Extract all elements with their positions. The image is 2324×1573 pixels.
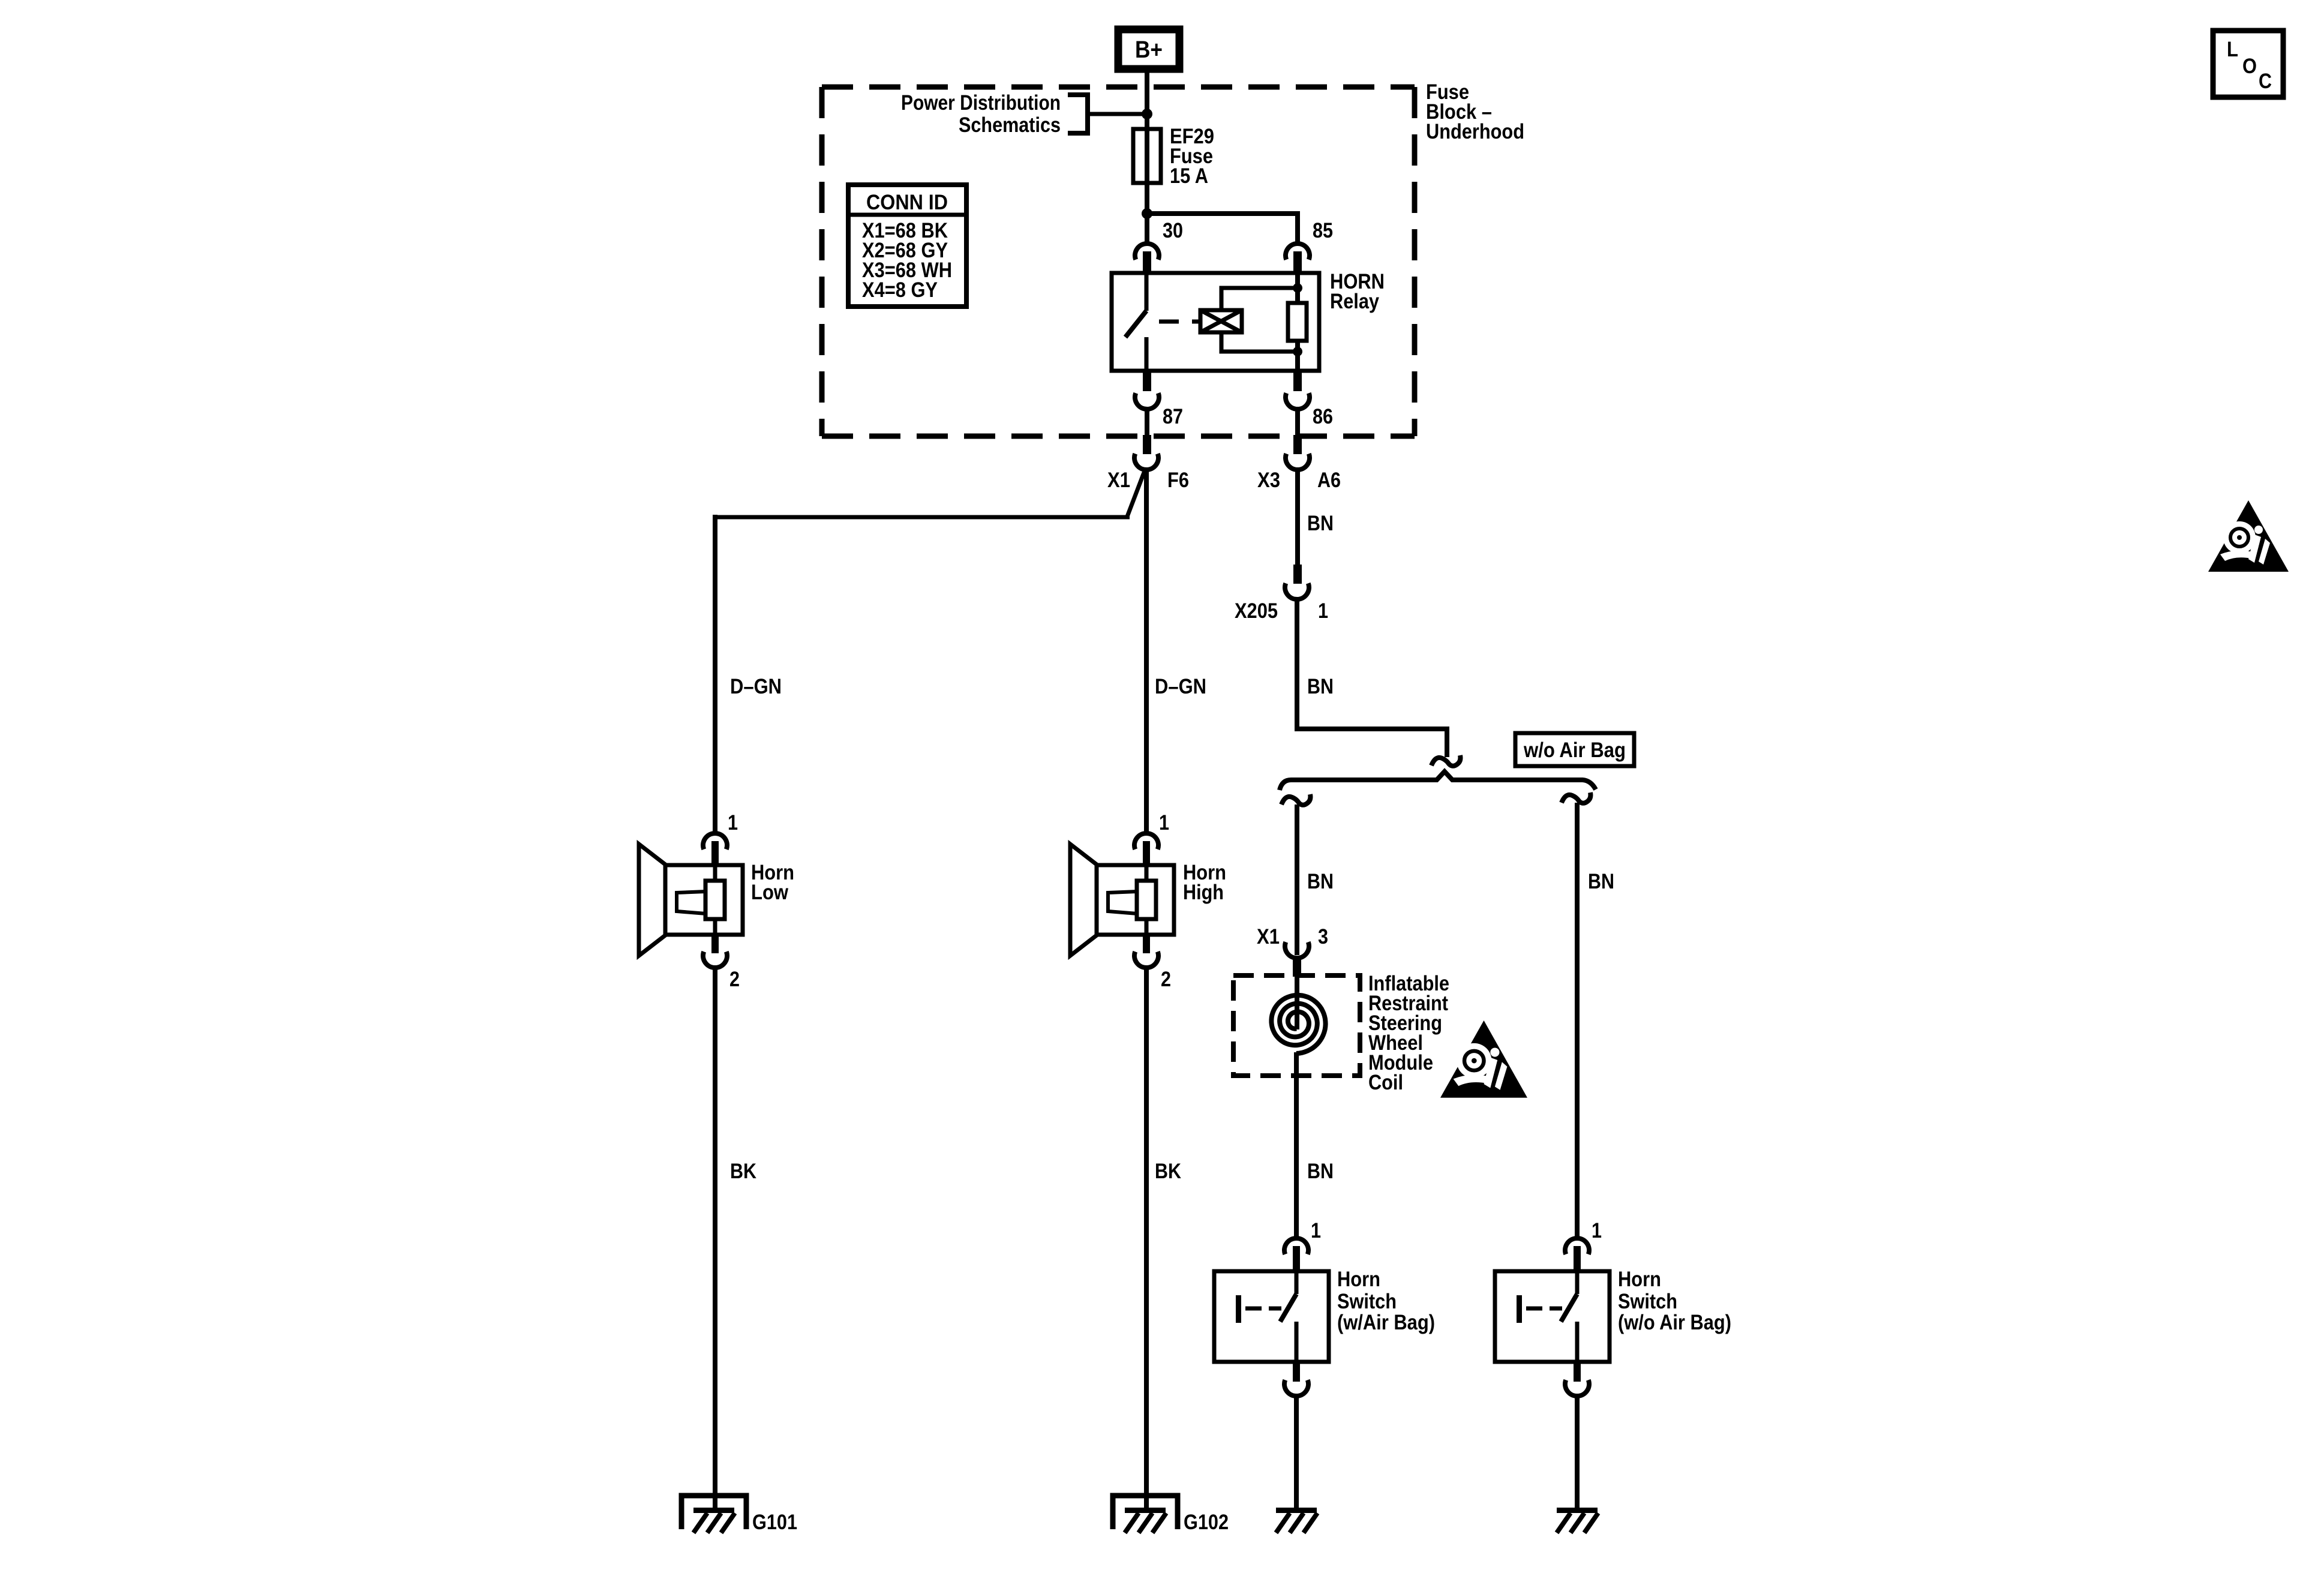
svg-text:X1: X1 bbox=[1107, 469, 1130, 492]
LOC letters bbox=[2227, 38, 2272, 93]
wire break squiggle at feed bbox=[1431, 755, 1460, 766]
svg-text:Switch: Switch bbox=[1618, 1290, 1677, 1313]
relay coil box with X bbox=[1200, 310, 1242, 332]
svg-text:L: L bbox=[2227, 38, 2238, 61]
horn switch w/Air Bag label bbox=[1337, 1268, 1435, 1334]
horn low symbol bbox=[703, 833, 727, 849]
wire pin 86 to X3 A6 bbox=[1295, 409, 1300, 445]
svg-text:C: C bbox=[2259, 70, 2272, 93]
svg-text:(w/o Air Bag): (w/o Air Bag) bbox=[1618, 1311, 1731, 1334]
pin 1 label horn high bbox=[1159, 811, 1169, 834]
wire left option down to coil connector bbox=[1295, 804, 1299, 955]
wire horn low column upper bbox=[713, 515, 717, 833]
svg-text:(w/Air Bag): (w/Air Bag) bbox=[1337, 1311, 1435, 1334]
pin 1 label switch right bbox=[1592, 1219, 1602, 1242]
svg-text:B+: B+ bbox=[1135, 37, 1163, 63]
relay pin 30 connector bbox=[1135, 244, 1159, 260]
svg-text:X4=8 GY: X4=8 GY bbox=[862, 278, 938, 302]
svg-text:1: 1 bbox=[1318, 599, 1328, 623]
svg-text:Horn: Horn bbox=[1618, 1268, 1661, 1291]
fuse block - underhood dashed outline box bbox=[822, 87, 1415, 436]
B+ label bbox=[1135, 37, 1163, 63]
wire switch left to ground bbox=[1294, 1396, 1299, 1511]
wire X205 down and jog right bbox=[1297, 599, 1447, 757]
svg-text:High: High bbox=[1183, 881, 1224, 904]
svg-text:BN: BN bbox=[1307, 512, 1334, 535]
wire break squiggle right option bbox=[1562, 792, 1590, 803]
pin 85 label bbox=[1313, 219, 1333, 242]
pin 87 label bbox=[1163, 405, 1183, 428]
X1 pin 3 labels bbox=[1257, 925, 1328, 948]
svg-text:BK: BK bbox=[730, 1160, 756, 1183]
svg-text:1: 1 bbox=[1159, 811, 1169, 834]
svg-text:87: 87 bbox=[1163, 405, 1183, 428]
pin 2 label horn low bbox=[729, 968, 740, 991]
coil label bbox=[1368, 972, 1449, 1094]
svg-text:2: 2 bbox=[1161, 968, 1171, 991]
wire horizontal to horn low column bbox=[715, 515, 1130, 520]
ground G101 bbox=[681, 1496, 746, 1529]
horn switch w/Air Bag symbol bbox=[1284, 1238, 1308, 1254]
svg-text:F6: F6 bbox=[1167, 469, 1189, 492]
wire tap to power distribution bracket bbox=[1089, 112, 1142, 116]
svg-text:Coil: Coil bbox=[1368, 1071, 1403, 1094]
BN label below X205 bbox=[1307, 675, 1334, 698]
svg-text:Switch: Switch bbox=[1337, 1290, 1397, 1313]
coil dashed box bbox=[1233, 975, 1360, 1076]
svg-text:X1: X1 bbox=[1257, 925, 1280, 948]
relay pin 87 connector bbox=[1143, 370, 1151, 391]
w/o Air Bag label bbox=[1523, 739, 1626, 762]
wire diagonal from X1 F6 bbox=[1127, 471, 1145, 517]
BN label left option bbox=[1307, 870, 1334, 893]
svg-text:3: 3 bbox=[1318, 925, 1328, 948]
connector X205 pin 1 bbox=[1293, 565, 1302, 584]
HORN Relay label bbox=[1330, 270, 1385, 313]
pin 1 label switch left bbox=[1311, 1219, 1321, 1242]
D-GN label horn high bbox=[1155, 675, 1206, 698]
wire B+ down through fuse to pin 30 bbox=[1145, 69, 1149, 244]
relay resistor bbox=[1288, 303, 1307, 341]
relay coil top lead bbox=[1221, 288, 1298, 310]
svg-text:D–GN: D–GN bbox=[730, 675, 782, 698]
relay actuator dashed link bbox=[1159, 320, 1200, 324]
svg-text:BN: BN bbox=[1588, 870, 1614, 893]
fuse EF29 15A symbol bbox=[1133, 129, 1161, 183]
X3 A6 labels bbox=[1257, 469, 1341, 492]
svg-text:CONN ID: CONN ID bbox=[866, 191, 948, 214]
D-GN label horn low bbox=[730, 675, 782, 698]
wire break squiggle left option bbox=[1281, 794, 1310, 805]
w/o Air Bag option box bbox=[1515, 733, 1634, 766]
junction dot below fuse bbox=[1142, 208, 1152, 219]
wire pin 87 to X1 F6 bbox=[1145, 409, 1149, 445]
wire through relay right side bbox=[1295, 274, 1300, 371]
pin 30 label bbox=[1163, 219, 1183, 242]
BK label horn low bbox=[730, 1160, 756, 1183]
wire from fuse junction to relay pin 85 bbox=[1147, 214, 1298, 244]
power distribution bracket bbox=[1068, 95, 1088, 133]
svg-text:2: 2 bbox=[729, 968, 740, 991]
relay pin 85 connector bbox=[1286, 244, 1310, 260]
wire out of coil bbox=[1294, 1052, 1299, 1238]
clockspring coil spiral bbox=[1271, 995, 1325, 1053]
svg-text:D–GN: D–GN bbox=[1155, 675, 1206, 698]
LOC reference box bbox=[2213, 31, 2283, 97]
ground G102 bbox=[1113, 1496, 1178, 1529]
horn switch w/o Air Bag symbol bbox=[1565, 1238, 1589, 1254]
ground below horn switch left bbox=[1276, 1508, 1317, 1513]
svg-text:O: O bbox=[2242, 55, 2257, 78]
horn switch w/o Air Bag label bbox=[1618, 1268, 1731, 1334]
wire switch right to ground bbox=[1575, 1396, 1580, 1511]
svg-text:86: 86 bbox=[1313, 405, 1333, 428]
G102 label bbox=[1184, 1511, 1229, 1534]
svg-text:w/o Air Bag: w/o Air Bag bbox=[1523, 739, 1626, 762]
pin 86 label bbox=[1313, 405, 1333, 428]
power distribution schematics label bbox=[901, 91, 1061, 137]
svg-text:BN: BN bbox=[1307, 675, 1334, 698]
wire horn high to ground bbox=[1144, 968, 1149, 1511]
horn high label bbox=[1183, 861, 1226, 904]
fuse EF29 label bbox=[1170, 125, 1214, 188]
svg-text:X3: X3 bbox=[1257, 469, 1280, 492]
BN label coil to switch bbox=[1307, 1160, 1334, 1183]
CONN ID table box bbox=[848, 185, 966, 307]
svg-text:A6: A6 bbox=[1317, 469, 1341, 492]
svg-text:BN: BN bbox=[1307, 870, 1334, 893]
svg-text:85: 85 bbox=[1313, 219, 1333, 242]
svg-text:Relay: Relay bbox=[1330, 290, 1379, 313]
wire right option down to horn switch bbox=[1575, 803, 1580, 1238]
relay switch contact upper bbox=[1145, 273, 1149, 311]
connector X3 A6 bbox=[1293, 435, 1302, 454]
wire horn low to ground bbox=[713, 968, 717, 1511]
connector X1 F6 bbox=[1143, 435, 1151, 454]
horn high symbol bbox=[1134, 833, 1158, 849]
airbag warning triangle right margin bbox=[2208, 500, 2289, 572]
svg-text:BK: BK bbox=[1155, 1160, 1181, 1183]
svg-text:Schematics: Schematics bbox=[959, 113, 1061, 137]
pin 1 label horn low bbox=[728, 811, 738, 834]
relay pin 86 connector bbox=[1293, 370, 1302, 391]
G101 label bbox=[752, 1511, 797, 1534]
svg-text:G101: G101 bbox=[752, 1511, 797, 1534]
svg-text:G102: G102 bbox=[1184, 1511, 1229, 1534]
svg-text:BN: BN bbox=[1307, 1160, 1334, 1183]
wire X3 down to X205 bbox=[1295, 470, 1300, 567]
svg-text:15 A: 15 A bbox=[1170, 164, 1208, 188]
junction dot coil top bbox=[1293, 283, 1302, 293]
svg-text:30: 30 bbox=[1163, 219, 1183, 242]
CONN ID table text bbox=[862, 191, 952, 302]
X1 F6 labels bbox=[1107, 469, 1189, 492]
wire into coil bbox=[1295, 975, 1299, 1029]
junction dot at power distribution tap bbox=[1142, 109, 1152, 119]
options split brace bbox=[1280, 772, 1596, 790]
svg-text:Underhood: Underhood bbox=[1426, 120, 1524, 143]
svg-text:1: 1 bbox=[1311, 1219, 1321, 1242]
relay coil bottom lead bbox=[1221, 332, 1298, 352]
wire horn high column upper bbox=[1144, 470, 1149, 833]
svg-text:1: 1 bbox=[1592, 1219, 1602, 1242]
relay switch contact lower bbox=[1145, 337, 1149, 371]
BN label above X205 bbox=[1307, 512, 1334, 535]
svg-text:1: 1 bbox=[728, 811, 738, 834]
svg-text:Horn: Horn bbox=[1337, 1268, 1380, 1291]
fuse block label bbox=[1426, 80, 1524, 143]
relay switch blade bbox=[1125, 311, 1146, 337]
BN label right option bbox=[1588, 870, 1614, 893]
airbag warning triangle at coil bbox=[1440, 1020, 1527, 1098]
pin 2 label horn high bbox=[1161, 968, 1171, 991]
junction dot coil bottom bbox=[1293, 347, 1302, 356]
svg-text:X205: X205 bbox=[1235, 599, 1278, 623]
horn relay box bbox=[1112, 273, 1319, 371]
svg-text:Power Distribution: Power Distribution bbox=[901, 91, 1061, 115]
svg-text:Low: Low bbox=[751, 881, 789, 904]
BK label horn high bbox=[1155, 1160, 1181, 1183]
connector X1 pin 3 bbox=[1285, 942, 1309, 958]
horn low label bbox=[751, 861, 794, 904]
ground below horn switch right bbox=[1557, 1508, 1598, 1513]
battery feed B+ box bbox=[1118, 29, 1179, 69]
X205 labels bbox=[1235, 599, 1328, 623]
